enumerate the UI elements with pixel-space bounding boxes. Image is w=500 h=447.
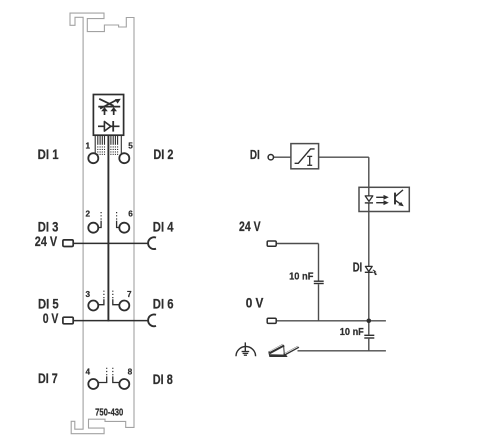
svg-text:DI 1: DI 1 xyxy=(38,146,59,162)
svg-text:DI: DI xyxy=(250,147,260,162)
svg-text:750-430: 750-430 xyxy=(95,408,123,419)
svg-text:0 V: 0 V xyxy=(43,310,59,326)
svg-text:2: 2 xyxy=(85,210,90,219)
svg-text:DI 2: DI 2 xyxy=(153,146,173,162)
svg-text:DI 3: DI 3 xyxy=(38,219,59,235)
svg-text:7: 7 xyxy=(127,290,132,299)
svg-text:DI 4: DI 4 xyxy=(153,219,174,235)
svg-text:DI 6: DI 6 xyxy=(153,296,174,312)
svg-text:3: 3 xyxy=(85,290,90,299)
svg-text:DI: DI xyxy=(353,260,363,275)
svg-text:4: 4 xyxy=(85,368,90,377)
svg-text:10 nF: 10 nF xyxy=(340,327,364,338)
svg-text:24 V: 24 V xyxy=(35,233,58,249)
svg-text:0 V: 0 V xyxy=(246,295,264,311)
svg-text:8: 8 xyxy=(128,368,133,377)
svg-text:10 nF: 10 nF xyxy=(289,271,313,282)
svg-text:5: 5 xyxy=(128,142,133,151)
svg-text:DI 8: DI 8 xyxy=(153,371,173,387)
svg-text:DI 7: DI 7 xyxy=(38,370,58,386)
svg-text:24 V: 24 V xyxy=(239,218,261,234)
svg-text:1: 1 xyxy=(85,142,90,151)
svg-text:6: 6 xyxy=(128,210,133,219)
